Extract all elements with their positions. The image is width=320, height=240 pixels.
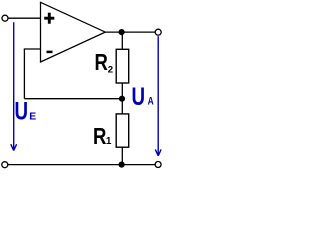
wire: output node down to R2 bbox=[121, 32, 123, 49]
bottom-left terminal (open circle) bbox=[2, 162, 8, 168]
resistor R2 body bbox=[116, 49, 129, 83]
svg-text:1: 1 bbox=[106, 136, 112, 147]
output terminal (top-right, open circle) bbox=[155, 29, 161, 35]
bottom-right terminal (open circle) bbox=[155, 162, 161, 168]
node: bottom rail junction dot bbox=[119, 162, 125, 168]
label UA bbox=[132, 82, 154, 110]
node: divider junction dot (R1/R2) bbox=[119, 96, 125, 102]
wire: non-inverting input wire bbox=[8, 17, 41, 19]
label R2 bbox=[95, 50, 114, 75]
resistor R1 body bbox=[116, 114, 129, 147]
svg-text:E: E bbox=[29, 111, 36, 122]
wire: R2 bottom to divider node bbox=[121, 83, 123, 99]
svg-text:U: U bbox=[132, 82, 146, 110]
op-amp minus (inverting) marker bbox=[47, 51, 53, 54]
label UE bbox=[15, 97, 37, 125]
op-amp plus (non-inverting) marker bbox=[44, 13, 54, 24]
svg-text:A: A bbox=[148, 96, 154, 108]
wire: inverting input wire bbox=[24, 48, 41, 50]
wire: bottom rail bbox=[8, 164, 155, 166]
wire: feedback horizontal segment to R divider node bbox=[24, 98, 122, 100]
UA voltage arrow (output) bbox=[155, 36, 161, 156]
wire: feedback vertical segment bbox=[23, 49, 25, 99]
input terminal (top-left, open circle) bbox=[2, 15, 8, 21]
svg-text:R: R bbox=[93, 124, 106, 149]
svg-text:R: R bbox=[95, 50, 108, 75]
svg-text:2: 2 bbox=[108, 65, 113, 76]
op-amp U1 triangle bbox=[41, 2, 106, 62]
svg-text:U: U bbox=[15, 97, 29, 125]
wire: R1 bottom to ground rail bbox=[121, 147, 123, 164]
node: output junction dot bbox=[119, 29, 125, 35]
wire: divider node to R1 bbox=[121, 99, 123, 114]
wire: output wire bbox=[104, 31, 155, 33]
label R1 bbox=[93, 124, 112, 149]
UE voltage arrow (input) bbox=[11, 22, 17, 150]
